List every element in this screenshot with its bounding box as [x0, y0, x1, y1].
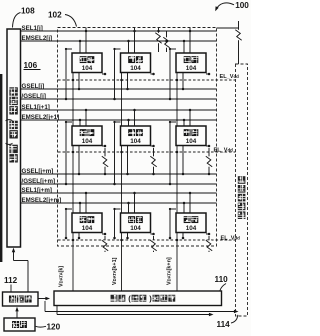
svg-text:102: 102	[48, 11, 62, 20]
svg-text:106: 106	[24, 61, 38, 70]
svg-text:104: 104	[186, 138, 197, 145]
svg-text:104: 104	[130, 225, 141, 232]
svg-text:112: 112	[4, 276, 18, 285]
svg-text:104: 104	[82, 65, 93, 72]
svg-text:EMSEL2[j]: EMSEL2[j]	[22, 35, 53, 42]
svg-text:/GSEL[j]: /GSEL[j]	[22, 93, 46, 100]
svg-text:GSEL[j+m]: GSEL[j+m]	[22, 168, 54, 175]
svg-text:108: 108	[21, 7, 35, 16]
svg-text:100: 100	[235, 1, 249, 10]
svg-text:104: 104	[130, 138, 141, 145]
svg-text:104: 104	[82, 138, 93, 145]
svg-text:104: 104	[82, 225, 93, 232]
svg-text:SEL1[j+1]: SEL1[j+1]	[22, 104, 50, 111]
svg-text:SEL1[j+m]: SEL1[j+m]	[22, 187, 52, 194]
svg-text:104: 104	[130, 65, 141, 72]
svg-text:EMSEL2[j+1]: EMSEL2[j+1]	[22, 114, 60, 121]
svg-text:120: 120	[47, 323, 61, 332]
svg-text:EMSEL2[j+m]: EMSEL2[j+m]	[22, 197, 62, 204]
svg-text:SEL1[j]: SEL1[j]	[22, 25, 43, 32]
svg-text:104: 104	[186, 65, 197, 72]
svg-text:/GSEL[j+m]: /GSEL[j+m]	[22, 178, 56, 185]
svg-text:104: 104	[186, 225, 197, 232]
svg-text:GSEL[j]: GSEL[j]	[22, 83, 45, 90]
svg-text:114: 114	[217, 320, 231, 329]
svg-text:110: 110	[215, 275, 229, 284]
